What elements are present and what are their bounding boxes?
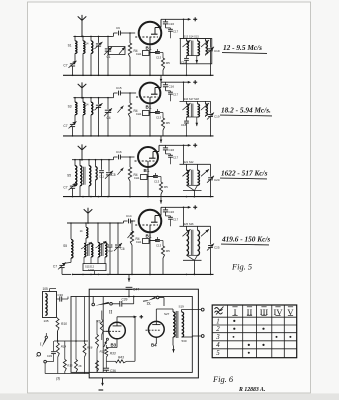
output transformer primary (172, 309, 174, 312)
svg-text:R5: R5 (166, 61, 170, 65)
IF secondary coil stage 4 (197, 226, 199, 230)
node line stage 3 (72, 159, 112, 161)
scan bottom margin strip (0, 393, 339, 400)
table outer frame (212, 305, 297, 358)
cathode lead stage 3 (147, 168, 149, 197)
cathode lead stage 4 (149, 233, 151, 275)
B3 grid (106, 330, 121, 332)
svg-text:2: 2 (216, 326, 220, 333)
svg-text:419.6 - 150 Kc/s: 419.6 - 150 Kc/s (221, 235, 270, 244)
decoupling capacitor C16 stage 4 (165, 207, 167, 210)
B1 grid (136, 96, 158, 98)
svg-text:S3: S3 (68, 105, 72, 109)
svg-text:R14: R14 (61, 345, 67, 349)
trimmer capacitor C8 (98, 98, 100, 105)
svg-text:C11: C11 (99, 175, 104, 179)
earth arrow under IF stage 1 (196, 56, 198, 59)
svg-text:C12: C12 (108, 249, 114, 253)
IF transformer feed stage 3 (183, 145, 185, 164)
HT rail with arrow and + stage 2 (161, 81, 189, 83)
output transformer core (175, 311, 177, 338)
svg-text:C13: C13 (156, 56, 162, 60)
bottom rail stage 3 (63, 196, 214, 198)
secondary to output terminal lower (182, 336, 193, 338)
table column lines (226, 305, 228, 358)
svg-text:CH1: CH1 (136, 52, 142, 56)
terminal with tail (37, 352, 41, 356)
IF bottom wire stage 2 (187, 116, 198, 118)
anode feed to HT rail stage 2 (160, 82, 162, 87)
plus mark stage 1 (193, 18, 197, 20)
variable capacitor C5 (108, 160, 110, 172)
variable capacitor C1 (107, 36, 109, 48)
svg-text:C5: C5 (112, 173, 116, 177)
svg-text:C17: C17 (173, 92, 179, 96)
cathode lead stage 2 (149, 104, 151, 136)
svg-text:R12: R12 (100, 350, 106, 354)
valve B3 envelope (109, 322, 126, 339)
coil S3 (90, 36, 92, 41)
grid resistor R4 stage 4 (131, 221, 133, 231)
coupling capacitor C17 stage 4 (166, 215, 171, 217)
svg-text:18.2 - 5.94 Mc/s.: 18.2 - 5.94 Mc/s. (221, 106, 271, 115)
bottom rail stage 4 (72, 273, 214, 275)
svg-text:C17: C17 (173, 156, 179, 160)
plus mark stage 3 (193, 144, 197, 146)
earth arrow below rail stage 1 (160, 76, 162, 83)
bottom rail stage 2 (63, 135, 214, 137)
tap coil S8 (85, 223, 87, 227)
earth arrow below box (102, 378, 104, 384)
svg-text:4: 4 (216, 342, 220, 349)
B4 anode wire to transformer (155, 309, 157, 321)
cathode bypass capacitor C13 stage 2 (150, 112, 157, 114)
IF primary coil stage 1 (186, 39, 188, 42)
grid coupling capacitor C16 (112, 159, 114, 161)
svg-text:S5: S5 (67, 174, 71, 178)
svg-text:1: 1 (216, 318, 219, 325)
IF third winding stage 1 (205, 39, 207, 42)
IF third winding stage 2 (205, 101, 207, 104)
svg-text:135: 135 (44, 319, 49, 323)
svg-text:S27: S27 (164, 312, 170, 316)
screen box outer (89, 289, 198, 378)
HT feed arrow into output stage (128, 275, 130, 282)
choke CH1 stage 1 (143, 51, 150, 56)
IF shield box stage 1 (180, 39, 212, 64)
AVC trimmer arrow (118, 168, 124, 175)
output transformer secondary (182, 312, 184, 337)
plus mark stage 4 (193, 206, 197, 208)
bias resistor R5 stage 1 (162, 53, 164, 59)
svg-text:C16: C16 (169, 22, 175, 26)
IF secondary coil stage 2 (197, 101, 199, 104)
wire bottom left bundle (45, 373, 89, 375)
IF transformer feed stage 4 (183, 207, 185, 226)
coupling capacitor C17 stage 1 (166, 27, 171, 29)
HT rail with arrow and + stage 1 (161, 18, 189, 20)
coil S10 small (95, 160, 97, 167)
triode valve B1 envelope (140, 83, 161, 104)
IF transformer core stage 4 (190, 230, 192, 256)
coil S5 (aerial) (74, 160, 76, 166)
svg-text:C14: C14 (126, 214, 132, 218)
svg-text:C33: C33 (47, 354, 53, 358)
secondary to output terminal upper (181, 309, 183, 312)
resistor 16 (75, 341, 77, 360)
earth arrow below rail stage 2 (160, 136, 162, 143)
input terminal (44, 360, 47, 363)
svg-text:C7: C7 (63, 186, 67, 190)
antenna (78, 146, 82, 150)
B1 grid (135, 160, 157, 162)
svg-text:(3): (3) (56, 377, 60, 381)
IF trimmer arrows stage 3 (183, 169, 191, 176)
svg-text:B1: B1 (146, 104, 152, 109)
svg-text:C16: C16 (116, 150, 122, 154)
IF primary coil stage 3 (186, 164, 188, 170)
svg-text:C18: C18 (181, 60, 187, 64)
svg-text:C13: C13 (156, 244, 162, 248)
B1 anode (155, 27, 161, 29)
svg-text:C15: C15 (116, 86, 122, 90)
resistor R6 (101, 311, 103, 320)
AVC trimmer arrow (128, 231, 134, 238)
cathode bypass capacitor C13 stage 3 (148, 176, 155, 178)
valve B4 envelope (148, 321, 164, 337)
IF earth drop stage 3 (193, 191, 195, 197)
svg-text:CH1: CH1 (136, 240, 142, 244)
choke CH1 stage 4 (143, 239, 150, 244)
table corner wave symbol (215, 308, 223, 315)
padder capacitor C12 (109, 223, 111, 244)
trimmer capacitor C7 (70, 185, 75, 187)
svg-text:C19: C19 (214, 115, 220, 119)
B4 cathode lead (155, 337, 157, 344)
grid coupling capacitor C15 (112, 97, 114, 99)
svg-text:C6: C6 (121, 247, 125, 251)
IF transformer feed stage 1 (183, 19, 185, 38)
IF primary coil stage 2 (186, 101, 188, 104)
svg-text:II: II (109, 311, 113, 316)
variable capacitor C6 (117, 223, 119, 244)
svg-text:Fig. 6: Fig. 6 (212, 375, 234, 384)
capacitor C47 (126, 286, 133, 288)
resistor R15 (64, 341, 66, 360)
triode valve B1 envelope (139, 210, 162, 233)
resistor R16 (84, 341, 86, 344)
coil S3 (aerial) (74, 98, 76, 103)
IF transformer top wire stage 2 (180, 100, 211, 102)
svg-text:CH1: CH1 (136, 112, 142, 116)
svg-text:S21 S22: S21 S22 (184, 160, 195, 164)
B4 anode (152, 324, 160, 326)
capacitor C18 stage 2 (186, 117, 188, 121)
padder capacitor C11 (101, 160, 103, 170)
resistor R12 (96, 335, 99, 349)
IF bottom wire stage 4 (187, 254, 198, 256)
trimmer capacitor C7 (70, 63, 75, 65)
svg-text:S16 S17 S18: S16 S17 S18 (184, 97, 200, 101)
feedback wire to anode rail (134, 317, 136, 362)
B1 cathode (149, 225, 151, 233)
svg-text:C16: C16 (169, 85, 175, 89)
B1 cathode (147, 161, 149, 168)
resistor R9 lower (96, 361, 99, 372)
svg-text:S1: S1 (68, 43, 72, 47)
IF bottom bus stage 3 (183, 190, 202, 192)
IF bottom bus stage 4 (183, 259, 202, 261)
cathode lead stage 1 (149, 45, 151, 76)
coil S7 (88, 160, 90, 166)
coil S10 pair with frame (98, 243, 100, 258)
coil S2 (82, 36, 84, 41)
IF trimmer arrows stage 2 (183, 103, 191, 110)
svg-text:IX: IX (147, 301, 151, 306)
svg-text:12 - 9.5 Mc/s: 12 - 9.5 Mc/s (223, 43, 262, 52)
capacitor C30 (57, 298, 60, 300)
IF transformer core stage 1 (190, 41, 192, 56)
B1 anode (155, 87, 161, 89)
resistor R10 (57, 318, 59, 319)
svg-text:Fig. 5: Fig. 5 (231, 263, 252, 272)
IF secondary coil stage 3 (197, 164, 199, 170)
IF transformer core stage 3 (190, 170, 192, 186)
svg-text:C25: C25 (214, 246, 220, 250)
transformer primary return arrow (172, 337, 174, 346)
decoupling capacitor C16 stage 1 (165, 19, 167, 22)
antenna (78, 84, 82, 88)
svg-text:S13 S14 S15: S13 S14 S15 (184, 34, 200, 38)
node line stage 4 (67, 222, 122, 224)
coupling capacitor C17 stage 3 (166, 153, 171, 155)
anode feed to HT rail stage 3 (158, 145, 160, 151)
trimmer capacitor C19 stage 2 (210, 101, 212, 113)
switch II (92, 303, 95, 306)
coil S9 pair with frame (84, 244, 86, 258)
svg-text:C1: C1 (107, 55, 111, 59)
svg-text:C4: C4 (107, 116, 111, 120)
coil S5 (90, 98, 92, 103)
AVC trimmer arrow (118, 106, 124, 113)
IF transformer feed stage 2 (183, 82, 185, 101)
choke CH1 stage 3 (141, 175, 148, 180)
svg-text:C16: C16 (169, 210, 175, 214)
B3 cathode wire (116, 339, 118, 348)
svg-text:C7: C7 (53, 264, 57, 268)
table row lines (212, 316, 297, 318)
svg-text:3: 3 (215, 334, 220, 341)
B1 cathode (149, 37, 151, 45)
bias resistor R5 stage 2 (162, 113, 164, 119)
AVC trimmer arrow (119, 47, 125, 54)
trimmer capacitor C19 stage 3 (210, 164, 212, 177)
HT rail with arrow and + stage 3 (159, 144, 189, 146)
wire cross bar upper (54, 340, 88, 342)
plus mark stage 2 (193, 81, 197, 83)
choke CH1 stage 2 (143, 111, 150, 116)
svg-text:R5: R5 (166, 121, 170, 125)
B1 anode (155, 215, 161, 217)
svg-text:C17: C17 (173, 218, 179, 222)
table dots (233, 320, 235, 322)
coil S6 pair with core (79, 160, 81, 166)
svg-text:105: 105 (43, 287, 49, 291)
trimmer capacitor C7 (70, 123, 75, 125)
svg-text:R43: R43 (118, 355, 124, 359)
svg-text:C20: C20 (214, 178, 220, 182)
svg-text:R5: R5 (166, 249, 170, 253)
IF transformer top wire stage 1 (180, 38, 211, 40)
potentiometer wiper arrow (106, 338, 108, 340)
capacitor C33 (53, 341, 55, 351)
svg-text:S25 S26: S25 S26 (184, 222, 195, 226)
B1 grid (135, 224, 158, 226)
IF trimmer arrows stage 1 (183, 40, 191, 47)
trimmer capacitor C19 stage 1 (210, 39, 212, 48)
grid resistor R4 stage 1 (129, 33, 131, 43)
grid coupling capacitor C14 (122, 222, 124, 224)
svg-text:C30: C30 (58, 293, 64, 297)
coil frame box label S11 S12 (83, 264, 106, 271)
grid return wire B3 (103, 330, 109, 332)
trimmer capacitor C8 (98, 36, 100, 43)
resistor R43 (105, 357, 107, 361)
svg-text:16: 16 (78, 364, 82, 368)
B3 anode (113, 325, 122, 327)
IF bottom wire stage 3 (187, 184, 198, 186)
earth arrow below rail stage 3 (160, 197, 162, 204)
svg-text:5: 5 (216, 350, 220, 357)
svg-text:530: 530 (182, 339, 187, 343)
svg-text:B1: B1 (144, 168, 150, 173)
anode feed to HT rail stage 1 (160, 19, 162, 27)
variable capacitor C4 (107, 98, 109, 110)
earth arrow under IF stage 2 (196, 117, 198, 121)
grid resistor R4 stage 2 (129, 93, 131, 103)
switch IX (143, 300, 148, 303)
coil S7 (aerial) (70, 223, 72, 239)
svg-text:B3: B3 (111, 342, 117, 347)
resistor R33 (105, 348, 108, 358)
capacitor C39 (112, 303, 120, 305)
node line stage 2 (73, 97, 111, 99)
IF bottom wire stage 1 (187, 55, 198, 57)
svg-text:CH1: CH1 (134, 176, 140, 180)
IF transformer top wire stage 4 (180, 225, 211, 227)
svg-text:S11S12: S11S12 (85, 265, 95, 269)
IF transformer core stage 2 (190, 104, 192, 118)
B1 grid (135, 36, 158, 38)
svg-text:R15: R15 (67, 364, 73, 368)
svg-text:R33: R33 (110, 352, 116, 356)
triode valve B1 envelope (138, 147, 158, 167)
range switch arm I (45, 336, 47, 338)
svg-text:C36: C36 (110, 369, 116, 373)
svg-text:R10: R10 (61, 322, 67, 326)
decoupling capacitor C16 stage 3 (165, 145, 167, 148)
node line stage 1 (73, 35, 111, 37)
grid resistor R4 stage 3 (129, 157, 131, 167)
IF primary coil stage 4 (186, 226, 188, 230)
mains dropper coil 105 (43, 292, 57, 318)
svg-text:B1: B1 (146, 45, 152, 50)
svg-text:C9: C9 (116, 26, 120, 30)
svg-text:1622 - 517 Kc/s: 1622 - 517 Kc/s (221, 169, 268, 178)
IF secondary coil stage 1 (197, 39, 199, 42)
svg-text:C17: C17 (173, 30, 179, 34)
cathode bypass capacitor C13 stage 4 (150, 240, 157, 242)
coil S4 (82, 98, 84, 103)
svg-text:C19: C19 (214, 49, 220, 53)
trimmer capacitor C7 (59, 264, 64, 266)
capacitor C18 stage 1 (186, 56, 188, 59)
B1 anode (153, 151, 159, 153)
B1 cathode (149, 97, 151, 104)
coupling capacitor C17 stage 2 (166, 90, 171, 92)
svg-text:R 12883 A.: R 12883 A. (238, 387, 265, 393)
svg-text:S5: S5 (63, 244, 67, 248)
cathode bypass capacitor C13 stage 1 (150, 52, 157, 54)
capacitor C38 (105, 361, 107, 368)
antenna (84, 209, 88, 213)
triode valve B1 envelope (139, 22, 162, 45)
decoupling capacitor C16 stage 2 (165, 82, 167, 85)
bias resistor R5 stage 3 (160, 177, 162, 183)
B4 grid (146, 329, 161, 331)
B3 anode supply arrow + (116, 317, 118, 322)
bottom rail stage 1 (63, 74, 214, 76)
trimmer capacitor C19 stage 4 (210, 226, 212, 244)
oscillator trimmer box (109, 47, 126, 55)
svg-text:C7: C7 (63, 124, 67, 128)
svg-text:C39: C39 (122, 298, 128, 302)
HT rail with arrow and + stage 4 (161, 206, 189, 208)
svg-text:C18: C18 (181, 123, 187, 127)
svg-text:C13: C13 (156, 116, 162, 120)
svg-text:S196: S196 (88, 268, 95, 272)
antenna (78, 16, 82, 20)
svg-text:C13: C13 (154, 180, 160, 184)
svg-text:B1: B1 (146, 233, 152, 238)
IF transformer top wire stage 3 (180, 163, 211, 165)
resistor R14 (57, 331, 59, 343)
coil S1 (aerial) (74, 36, 76, 41)
anode feed to HT rail stage 4 (160, 207, 162, 215)
svg-text:R16: R16 (87, 346, 93, 350)
grid coupling capacitor C9 (112, 35, 114, 37)
bias resistor R5 stage 4 (162, 241, 164, 247)
screen box inner bus (71, 297, 192, 373)
svg-text:C16: C16 (169, 148, 175, 152)
IF trimmer arrows stage 4 (183, 229, 191, 236)
svg-text:R5: R5 (164, 185, 168, 189)
svg-text:S19: S19 (179, 305, 185, 309)
svg-text:C7: C7 (63, 63, 67, 67)
IF earth drop stage 4 (193, 260, 195, 274)
